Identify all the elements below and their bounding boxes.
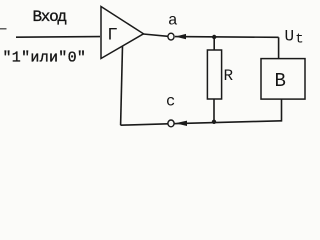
block B <box>261 59 305 100</box>
svg-text:a: a <box>168 12 178 30</box>
wire apex to node a <box>143 34 168 36</box>
resistor R <box>207 50 221 99</box>
arrowhead at node c <box>175 121 187 126</box>
wire R top lead <box>213 37 215 50</box>
junction dot at R top <box>212 35 216 39</box>
svg-text:U: U <box>285 28 295 46</box>
junction dot at R bottom <box>212 120 216 124</box>
wire node a to corner (top bus) <box>175 36 279 39</box>
wire input <box>16 36 100 39</box>
arrowhead at node a <box>175 34 186 39</box>
op-amp U1 (generator Г triangle) <box>101 7 144 59</box>
wire R bottom lead <box>213 99 215 122</box>
node c (circle) <box>168 120 174 127</box>
node a (circle) <box>168 33 174 40</box>
svg-text:"1"или"0": "1"или"0" <box>3 50 87 67</box>
wire bottom bus <box>121 121 282 125</box>
wire B bottom lead <box>281 99 283 122</box>
wire corner down into B <box>278 37 280 58</box>
svg-text:c: c <box>166 93 175 111</box>
svg-text:t: t <box>295 32 303 48</box>
artifact dash at left edge <box>0 28 7 30</box>
wire feedback vertical <box>121 46 123 125</box>
svg-text:В: В <box>275 70 286 92</box>
svg-text:R: R <box>224 67 234 85</box>
svg-text:Вход: Вход <box>33 8 67 26</box>
svg-text:Г: Г <box>107 26 118 46</box>
